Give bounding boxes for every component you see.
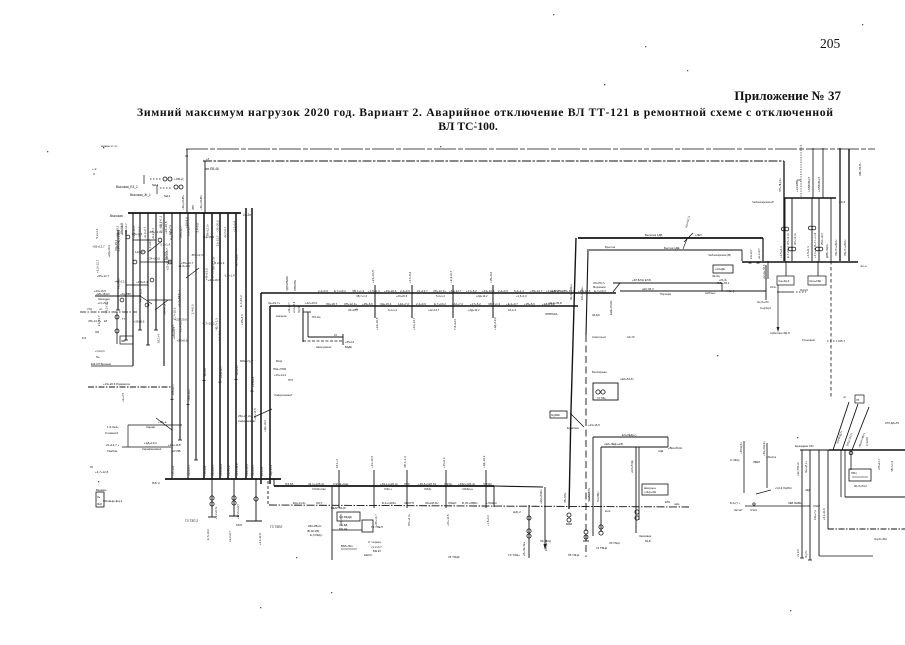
svg-text:+24+10,5: +24+10,5: [245, 464, 249, 476]
svg-text:АЦЕ: АЦЕ: [658, 449, 664, 453]
svg-text:ГЗ ТЗП 2: ГЗ ТЗП 2: [185, 519, 198, 523]
svg-text:+35+8,6: +35+8,6: [134, 319, 145, 323]
svg-text:+4,1+11,8: +4,1+11,8: [813, 245, 817, 258]
svg-text:+23+ДЕ: +23+ДЕ: [715, 267, 725, 271]
svg-text:+Е,2+0,7: +Е,2+0,7: [449, 270, 453, 283]
svg-text:Шеолукмонт: Шеолукмонт: [316, 345, 332, 349]
svg-text:14А+7,2: 14А+7,2: [163, 304, 167, 315]
svg-text:ЗЦ+15,4: ЗЦ+15,4: [269, 465, 273, 476]
svg-text:+ЕМ+ЛЗФч: +ЕМ+ЛЗФч: [539, 489, 543, 504]
svg-text:+2Д+19,2: +2Д+19,2: [144, 441, 157, 445]
svg-text:Высокая: Высокая: [110, 214, 123, 218]
svg-text:Ль: Ль: [97, 495, 101, 499]
svg-text:+43+16,5: +43+16,5: [588, 423, 600, 427]
svg-text:Шахунья+: Шахунья+: [644, 486, 657, 490]
svg-text:Брестня: Брестня: [605, 245, 616, 249]
svg-text:+42+13,7: +42+13,7: [412, 317, 416, 330]
svg-text:+2Д+19,2: +2Д+19,2: [468, 308, 480, 312]
svg-text:+55+12,7: +55+12,7: [124, 223, 128, 235]
svg-text:С. Чернец: С. Чернец: [368, 540, 381, 544]
svg-text:5,2+1,4: 5,2+1,4: [160, 242, 170, 246]
svg-text:+ЕЗ+ЛЗ,Зх: +ЕЗ+ЛЗ,Зх: [620, 377, 634, 381]
svg-text:Е,Л,ЛЕД,т: Е,Л,ЛЕД,т: [310, 533, 323, 537]
svg-text:ЧВ,7+1,3: ЧВ,7+1,3: [356, 294, 367, 298]
svg-text:ЛРЦ: ЛРЦ: [851, 471, 856, 475]
svg-text:+ЗЦ+ЛЫВч: +ЗЦ+ЛЫВч: [199, 195, 203, 210]
svg-text:ч-Бъfroн: ч-Бъfroн: [766, 455, 777, 459]
svg-text:ЗН+12,3+: ЗН+12,3+: [407, 513, 411, 526]
svg-text:Белоярская: Белоярская: [592, 370, 607, 374]
svg-text:Чга+ЗЦ-З: Чга+ЗЦ-З: [778, 279, 790, 283]
svg-text:Чита+1ВЕ: Чита+1ВЕ: [809, 279, 821, 283]
svg-text:Л: Л: [93, 172, 95, 176]
svg-text:+17+5,2: +17+5,2: [466, 289, 477, 293]
svg-text:+4,1+11,8: +4,1+11,8: [822, 508, 826, 520]
svg-text:5,2+1,4: 5,2+1,4: [388, 308, 397, 312]
svg-text:Арбеляне ЗД-Н: Арбеляне ЗД-Н: [770, 331, 790, 335]
svg-text:72): 72): [797, 178, 801, 182]
svg-text:Ераздваз 1Ю: Ераздваз 1Ю: [795, 444, 814, 448]
svg-text:+15+14,2: +15+14,2: [274, 373, 286, 377]
svg-text:Затча7: Затча7: [734, 508, 743, 512]
svg-text:ЦЗ(-2: ЦЗ(-2: [513, 510, 521, 514]
svg-text:ЗЗ,ЕЛ: ЗЗ,ЕЛ: [592, 313, 600, 317]
svg-text:Приложение № 37: Приложение № 37: [734, 88, 841, 103]
svg-text:Зимний максимум нагрузок 2020: Зимний максимум нагрузок 2020 год. Вариа…: [137, 106, 833, 119]
svg-text:+4,1+11В: +4,1+11В: [168, 443, 181, 447]
svg-text:+24+10,5: +24+10,5: [370, 456, 374, 468]
svg-text:5,2+1,4: 5,2+1,4: [215, 261, 225, 265]
svg-text:+Е,2+0,7: +Е,2+0,7: [187, 464, 191, 476]
svg-text:З-тЗЫр: З-тЗЫр: [730, 458, 740, 462]
svg-text:+ЕЛ,ЛЗ,Ч: +ЕЛ,ЛЗ,Ч: [642, 287, 654, 291]
svg-text:Нба+7000: Нба+7000: [273, 367, 287, 371]
svg-text:ЗЦЛУН: ЗЦЛУН: [404, 501, 414, 505]
svg-text:+24+10,5: +24+10,5: [132, 225, 136, 237]
svg-text:+23+20,6 Радимичи: +23+20,6 Радимичи: [103, 382, 130, 386]
svg-text:+42+13,7: +42+13,7: [114, 280, 127, 284]
svg-text:25А+19,2: 25А+19,2: [820, 233, 824, 245]
svg-text:+17+5,2+ЕУ: +17+5,2+ЕУ: [236, 504, 240, 519]
svg-text:ЗВ+ЛЗ(х: ЗВ+ЛЗ(х: [563, 492, 567, 503]
svg-text:ЗН+12,3+: ЗН+12,3+: [206, 223, 210, 236]
svg-text:ЧЕ-Лщ: ЧЕ-Лщ: [712, 275, 720, 278]
svg-text:+1,5+0,4: +1,5+0,4: [806, 246, 810, 258]
svg-text:225-7: 225-7: [838, 339, 846, 343]
svg-text:14А+7,2: 14А+7,2: [168, 224, 172, 235]
svg-text:+35+8,6: +35+8,6: [177, 338, 188, 342]
svg-text:+4,1+11,8: +4,1+11,8: [139, 289, 143, 302]
svg-text:+55+12,7: +55+12,7: [171, 384, 175, 396]
svg-text:205: 205: [820, 36, 841, 51]
svg-text:+55+12,7: +55+12,7: [877, 458, 881, 470]
svg-text:+23+20,6: +23+20,6: [216, 220, 220, 232]
svg-text:2,4+0,6: 2,4+0,6: [400, 289, 410, 293]
svg-text:+17+5,2: +17+5,2: [97, 301, 108, 305]
svg-text:1843: 1843: [236, 523, 242, 527]
svg-text:+В+ЧЕ,ЧЕ+: +В+ЧЕ,ЧЕ+: [522, 541, 526, 556]
svg-text:Зц)ЗЫБ: Зц)ЗЫБ: [551, 414, 560, 417]
svg-text:+Е,2+0,7: +Е,2+0,7: [143, 227, 147, 239]
svg-text:чіл-н: чіл-н: [860, 264, 867, 268]
svg-text:+32,7/32,2х: +32,7/32,2х: [796, 461, 800, 476]
svg-text:АэНЧыл: АэНЧыл: [705, 291, 716, 295]
svg-text:ВЗЛ+ЛЬч: ВЗЛ+ЛЬч: [341, 544, 353, 548]
svg-text:ЕВ-46: ЕВ-46: [210, 167, 219, 171]
svg-text:ПЗ,65: ПЗ,65: [285, 482, 294, 486]
svg-text:чн6е: чн6е: [674, 503, 680, 506]
svg-text:+35+8,6: +35+8,6: [524, 302, 535, 306]
svg-text:АТЛ ДЗ+ЛЗ: АТЛ ДЗ+ЛЗ: [885, 421, 899, 425]
svg-text:ЗН+12,3+: ЗН+12,3+: [88, 319, 101, 323]
svg-text:АЗ+ЛЗ,7х: АЗ+ЛЗ,7х: [684, 215, 691, 228]
svg-text:Б,4+1Д,Бх: Б,4+1Д,Бх: [382, 501, 396, 505]
svg-text:18,1+4: 18,1+4: [157, 334, 161, 343]
svg-text:18,1+4: 18,1+4: [335, 459, 339, 468]
svg-text:ЗЦ/ЛЗ: ЗЦ/ЛЗ: [298, 306, 301, 313]
svg-text:ЗН+12,3+: ЗН+12,3+: [433, 289, 446, 293]
svg-text:ЗЫ,Зч+ЛЫч: ЗЫ,Зч+ЛЫч: [843, 239, 847, 256]
svg-text:+632+126,4х: +632+126,4х: [458, 482, 476, 486]
svg-text:ГВ ТЗЦ2: ГВ ТЗЦ2: [568, 553, 580, 557]
svg-text:Е,7+10,2: Е,7+10,2: [234, 254, 238, 266]
svg-text:1н-2н: 1н-2н: [243, 213, 251, 217]
svg-text:АЬ,70: АЬ,70: [627, 335, 635, 339]
svg-text:лл: лл: [843, 396, 847, 399]
svg-text:+1,5+0,4: +1,5+0,4: [232, 221, 236, 233]
svg-text:+63,6+126,51: +63,6+126,51: [418, 482, 436, 486]
svg-text:25А+19,2: 25А+19,2: [187, 389, 191, 401]
svg-text:Зн+19,7+: Зн+19,7+: [268, 301, 280, 305]
svg-text:ОРВНЖА: ОРВНЖА: [545, 312, 558, 316]
svg-text:НО-ВЕДД: НО-ВЕДД: [339, 515, 352, 519]
svg-text:+Еч,Е+ЛЗ,З: +Еч,Е+ЛЗ,З: [762, 264, 766, 279]
svg-text:+43+16,5: +43+16,5: [208, 278, 221, 282]
svg-text:+24+20,7: +24+20,7: [288, 302, 291, 313]
svg-text:7,8+123: 7,8+123: [171, 465, 175, 476]
svg-text:Ам,Зч+ЛЗ: Ам,Зч+ЛЗ: [757, 301, 769, 304]
svg-text:Тронхвим: Тронхвим: [802, 338, 815, 342]
svg-text:Бестня 1ДЕ: Бестня 1ДЕ: [664, 246, 680, 250]
svg-text:НЕАН ЛЬ-Бт: НЕАН ЛЬ-Бт: [331, 506, 347, 510]
svg-text:ПЗ-Но: ПЗ-Но: [312, 315, 321, 319]
svg-text:вслв: вслв: [605, 510, 611, 513]
svg-text:ЗЦ,Зч+ЗЫ: ЗЦ,Зч+ЗЫ: [874, 537, 887, 541]
svg-text:Ч/141: Ч/141: [750, 508, 757, 512]
svg-text:ЕФ-КЛ Брянем: ЕФ-КЛ Брянем: [91, 362, 111, 366]
svg-text:+-2: +-2: [92, 167, 97, 171]
svg-text:+Е,2+0,7: +Е,2+0,7: [251, 464, 255, 476]
svg-text:ЕДЕ+ЛЗ,Бх: ЕДЕ+ЛЗ,Бх: [609, 300, 613, 315]
svg-text:18,1+4: 18,1+4: [203, 368, 207, 377]
svg-text:+17+5,2: +17+5,2: [470, 302, 481, 306]
svg-text:№14: №14: [164, 194, 171, 198]
svg-text:+Е,Ъ+ЛЗ,2: +Е,Ъ+ЛЗ,2: [716, 281, 730, 285]
svg-text:ПЗг 2: ПЗг 2: [152, 481, 160, 485]
svg-text:+24+10,5: +24+10,5: [371, 270, 375, 283]
svg-text:+З/ЗЦ,Зч: +З/ЗЦ,Зч: [739, 442, 743, 454]
svg-text:+23+20,6: +23+20,6: [384, 289, 397, 293]
svg-text:Е,7+10,2: Е,7+10,2: [786, 246, 790, 258]
svg-text:ГЛВУ/ЛЕ: ГЛВУ/ЛЕ: [293, 280, 297, 291]
svg-text:2,4+0,6: 2,4+0,6: [416, 302, 426, 306]
svg-text:Мирт: Мирт: [276, 359, 283, 363]
svg-text:+ВЫ+ЛЫ,Е: +ВЫ+ЛЫ,Е: [668, 446, 682, 450]
svg-text:5,2+1,4: 5,2+1,4: [514, 289, 524, 293]
svg-text:ЛЗ+18,7: ЛЗ+18,7: [326, 302, 338, 306]
svg-text:+ЕЛ+ЛЗДх: +ЕЛ+ЛЗДх: [630, 460, 634, 473]
svg-text:21+13,7: 21+13,7: [216, 235, 220, 246]
svg-text:+1,9+0,3: +1,9+0,3: [95, 350, 105, 353]
svg-text:ЗЬ,Л+ЛЗ,2: ЗЬ,Л+ЛЗ,2: [854, 484, 867, 488]
svg-text:5,2+1,4: 5,2+1,4: [95, 228, 99, 238]
svg-text:+Е,2+0,7: +Е,2+0,7: [211, 464, 215, 476]
svg-text:ЛЗ ТЗЦ2: ЛЗ ТЗЦ2: [609, 541, 620, 545]
svg-text:+ЗЦ+ЛЦ,Зч: +ЗЦ+ЛЦ,Зч: [762, 441, 766, 456]
svg-text:+Ч,ЕЛ: +Ч,ЕЛ: [796, 549, 800, 557]
svg-text:ДЗВ+ЗЦЗ+: ДЗВ+ЗЦЗ+: [825, 243, 829, 258]
svg-text:78: 78: [856, 398, 860, 402]
svg-text:Высокая_Ж_1: Высокая_Ж_1: [130, 193, 151, 197]
svg-text:П37: П37: [288, 378, 294, 382]
svg-text:+4,7+12,8: +4,7+12,8: [95, 470, 109, 474]
svg-text:Б,ЛУ+ЛВБх: Б,ЛУ+ЛВБх: [462, 501, 478, 505]
svg-text:+ЕЛ7+ЛЕА: +ЕЛ7+ЛЕА: [550, 289, 564, 293]
svg-text:+Ч,2+3,7: +Ч,2+3,7: [371, 545, 382, 549]
svg-text:25А-27,2х: 25А-27,2х: [238, 414, 252, 418]
svg-text:ЛЕВ ЗЫВЫ: ЛЕВ ЗЫВЫ: [788, 501, 803, 505]
svg-text:+1,5+0,4: +1,5+0,4: [516, 294, 527, 298]
svg-text:ЗЦ+ВЦД7х: ЗЦ+ВЦД7х: [835, 430, 843, 445]
svg-text:ЛВЕН: ЛВЕН: [753, 460, 760, 464]
svg-text:ЧВ,7+1,3: ЧВ,7+1,3: [403, 456, 407, 468]
svg-text:ЧДГЗ/ЛЕВА: ЧДГЗ/ЛЕВА: [285, 276, 289, 291]
svg-text:ЛЬ ТЫЦ: ЛЬ ТЫЦ: [540, 539, 552, 543]
svg-text:З-щ(ЗЦ,З: З-щ(ЗЦ,З: [760, 307, 771, 310]
svg-text:ВЗЦ+ЛЦ7х: ВЗЦ+ЛЦ7х: [845, 432, 853, 446]
svg-text:+55+12,7: +55+12,7: [92, 245, 105, 249]
svg-text:ВЬДЕ: ВЬДЕ: [345, 345, 352, 349]
svg-text:Моршанск: Моршанск: [593, 285, 607, 289]
svg-text:ЗВУ: ЗВУ: [191, 205, 195, 210]
svg-text:ЗН+12,3+: ЗН+12,3+: [793, 232, 797, 245]
svg-text:+35+8,6: +35+8,6: [362, 302, 373, 306]
svg-text:24,6+: 24,6+: [770, 285, 777, 289]
svg-text:+17+5,2: +17+5,2: [227, 465, 231, 476]
svg-text:ч-ЗЦч+ЗЫ: ч-ЗЦч+ЗЫ: [644, 491, 657, 494]
svg-text:+55+12,7: +55+12,7: [530, 289, 543, 293]
svg-text:14А+7,2: 14А+7,2: [813, 510, 817, 520]
svg-text:2,4+0,6: 2,4+0,6: [865, 437, 869, 446]
svg-text:№14: №14: [152, 183, 159, 187]
svg-text:+1,5+0,4: +1,5+0,4: [368, 289, 380, 293]
svg-text:7,8+123: 7,8+123: [453, 319, 457, 330]
svg-text:78 ТЗЦ9: 78 ТЗЦ9: [448, 555, 460, 559]
svg-text:ЛЗ+18,7: ЛЗ+18,7: [187, 225, 191, 236]
svg-text:+ЗЛЗ/ЛЫ,З: +ЗЛЗ/ЛЫ,З: [817, 177, 821, 192]
svg-text:+23+20,6: +23+20,6: [172, 327, 176, 340]
svg-text:Т.Г: Т.Г: [122, 318, 126, 321]
svg-text:+23+20,6: +23+20,6: [396, 294, 408, 298]
svg-text:ЗН+12,3+: ЗН+12,3+: [191, 253, 204, 257]
svg-text:+23+20,6: +23+20,6: [175, 318, 188, 322]
svg-text:+24+10,5: +24+10,5: [253, 408, 257, 420]
svg-text:+24+10,5: +24+10,5: [446, 514, 450, 526]
svg-text:Б,2+(7 +: Б,2+(7 +: [730, 501, 741, 505]
svg-text:+Е,2+0,7: +Е,2+0,7: [235, 364, 239, 375]
svg-text:+35+8,6: +35+8,6: [442, 457, 446, 468]
svg-text:ЕЛ+ЛЕДч+): ЕЛ+ЛЕДч+): [622, 433, 636, 437]
svg-text:+2Д+19,2: +2Д+19,2: [476, 294, 488, 298]
svg-text:+2Д+19,2: +2Д+19,2: [107, 245, 111, 258]
svg-text:5,2+1,4: 5,2+1,4: [225, 274, 235, 278]
svg-text:ЗИ: ЗИ: [95, 330, 99, 334]
svg-text:+42+20,6: +42+20,6: [305, 301, 317, 305]
svg-text:ЗМ+ЛЗ,В+: ЗМ+ЛЗ,В+: [858, 162, 862, 176]
svg-text:5,2+1,4: 5,2+1,4: [436, 294, 445, 298]
svg-text:14А+7,2: 14А+7,2: [452, 302, 463, 306]
svg-text:Пороним: Пороним: [660, 292, 671, 296]
svg-text:Словекс2: Словекс2: [105, 431, 118, 435]
svg-text:+55+12: +55+12: [345, 340, 355, 344]
svg-text:69-Б: 69-Б: [645, 539, 651, 543]
svg-text:ЛЭЦИ: ЛЭЦИ: [448, 501, 456, 505]
svg-text:ЛЧК+ч: ЛЧК+ч: [384, 487, 393, 491]
svg-text:+63,1+126,4х: +63,1+126,4х: [380, 482, 398, 486]
svg-text:Заячёвка: Заячёвка: [639, 534, 652, 538]
svg-text:СЭЧЭ+Сви: СЭЧЭ+Сви: [312, 487, 326, 491]
svg-text:5,2+1,4: 5,2+1,4: [117, 241, 121, 251]
svg-text:7,8+123: 7,8+123: [164, 252, 168, 263]
svg-text:25: 25: [185, 154, 189, 158]
svg-text:ЗЦ,Зч: ЗЦ,Зч: [804, 550, 808, 558]
svg-text:ВЛ ТС-100.: ВЛ ТС-100.: [438, 120, 498, 133]
svg-text:ЧВ,7+1,3: ЧВ,7+1,3: [488, 302, 501, 306]
svg-text:2,4+0,6: 2,4+0,6: [498, 289, 508, 293]
svg-text:+б: +б: [206, 157, 210, 161]
svg-text:ЗЫ,Зч+ЛЫч: ЗЫ,Зч+ЛЫч: [834, 239, 838, 256]
svg-text:Веселая 1ДБ: Веселая 1ДБ: [645, 233, 662, 237]
svg-text:Мба+7д,0: Мба+7д,0: [240, 359, 253, 363]
svg-text:Чебоксарская+Р: Чебоксарская+Р: [752, 200, 774, 204]
svg-text:+Е,2+0,7: +Е,2+0,7: [506, 302, 518, 306]
svg-text:44,1+126,4х: 44,1+126,4х: [308, 482, 325, 486]
svg-text:Заринская: Заринская: [98, 298, 110, 301]
svg-text:ЗН+12,3+: ЗН+12,3+: [211, 256, 215, 269]
svg-text:2,4+0,6: 2,4+0,6: [195, 223, 199, 233]
svg-text:ЕУ/ЛБ: ЕУ/ЛБ: [172, 449, 181, 453]
svg-text:ЛЭЧЬ: ЛЭЧЬ: [444, 482, 452, 486]
svg-text:+4,1+11,8: +4,1+11,8: [813, 232, 817, 245]
svg-text:Ерактваз: Ерактваз: [567, 426, 579, 430]
svg-text:+ЕЦ/+ЛЗ,Б: +ЕЦ/+ЛЗ,Б: [548, 301, 562, 305]
svg-text:Апатиты+й: Апатиты+й: [592, 335, 606, 339]
svg-text:ЛЗ+18,7: ЛЗ+18,7: [348, 308, 359, 312]
svg-text:ЕЗ+14,2с: ЕЗ+14,2с: [293, 501, 306, 505]
svg-text:ЗЗ+ЦЛ,Бх: ЗЗ+ЦЛ,Бх: [425, 501, 439, 505]
svg-text:+0,2+20,6: +0,2+20,6: [293, 301, 296, 313]
svg-text:Е,7+10,2: Е,7+10,2: [239, 295, 243, 307]
svg-text:СЭЧЭ+Сви: СЭЧЭ+Сви: [333, 482, 349, 486]
svg-text:Тамбов.: Тамбов.: [107, 449, 118, 453]
svg-text:+43+16,5: +43+16,5: [205, 268, 209, 281]
svg-text:+Ч,Ъ+(): +Ч,Ъ+(): [725, 289, 735, 293]
svg-text:7,8+123: 7,8+123: [203, 465, 207, 476]
svg-text:+Е,2+0,7: +Е,2+0,7: [159, 221, 163, 233]
svg-text:ЗУгУ: ЗУгУ: [316, 501, 323, 505]
svg-text:+Е,2+0,7х: +Е,2+0,7х: [214, 506, 218, 519]
svg-text:Видяево: Видяево: [96, 488, 107, 492]
svg-text:Е,7+10,2: Е,7+10,2: [206, 529, 210, 540]
svg-text:1,5-Зь4+: 1,5-Зь4+: [107, 425, 119, 429]
svg-text:+ЛЭЦЫ: +ЛЭЦЫ: [486, 501, 497, 505]
svg-text:Сафроновка7: Сафроновка7: [274, 393, 293, 397]
svg-text:+ЗЦ+ЛВУ: +ЗЦ+ЛВУ: [120, 293, 132, 296]
svg-text:Сараф.: Сараф.: [146, 425, 156, 429]
svg-text:+1,5+0,4: +1,5+0,4: [136, 280, 148, 284]
svg-text:Ю: Ю: [90, 465, 93, 469]
svg-text:+Е+2,5: +Е+2,5: [121, 392, 125, 402]
svg-text:ЗЛ+ЛЗ,7+: ЗЛ+ЛЗ,7+: [593, 281, 606, 285]
svg-text:+55+12,7: +55+12,7: [179, 226, 183, 238]
svg-text:Е,7+10,2: Е,7+10,2: [203, 322, 215, 326]
svg-text:18,1+4: 18,1+4: [177, 289, 181, 298]
svg-text:21+13,7: 21+13,7: [749, 249, 753, 259]
svg-text:+ЗЛЗ/ЛЫ,З: +ЗЛЗ/ЛЫ,З: [807, 177, 811, 192]
svg-text:+55+12,7: +55+12,7: [181, 261, 194, 265]
svg-text:ЗН+12,3+: ЗН+12,3+: [344, 302, 357, 306]
svg-text:ЕЛ: ЕЛ: [104, 320, 108, 323]
svg-text:+17+5,2: +17+5,2: [179, 321, 183, 332]
svg-text:+ОВ-2(: +ОВ-2(: [174, 177, 184, 181]
svg-text:+ЕЦн+ЕЦ,4: +ЕЦн+ЕЦ,4: [107, 499, 122, 503]
svg-text:+Е,2+0,7: +Е,2+0,7: [223, 226, 227, 238]
svg-text:+Е,2+0,7: +Е,2+0,7: [151, 227, 155, 239]
svg-text:Ль: Ль: [96, 355, 100, 359]
svg-text:ГЗ ТВЦ2: ГЗ ТВЦ2: [596, 546, 608, 550]
svg-text:+2Д+19,2: +2Д+19,2: [116, 225, 120, 238]
svg-text:ЗЦЛ: ЗЦЛ: [97, 503, 102, 506]
svg-text:Чебоксарская (В): Чебоксарская (В): [708, 253, 731, 257]
svg-text:+4,1+11,8: +4,1+11,8: [258, 533, 262, 545]
svg-text:ЛЫ,ВД: ЛЫ,ВД: [339, 523, 348, 527]
svg-text:+24+10,5: +24+10,5: [147, 257, 160, 261]
svg-text:Е,7+10,2: Е,7+10,2: [594, 289, 606, 293]
svg-text:ЗН+12,3+: ЗН+12,3+: [786, 232, 790, 245]
svg-text:(В-Элч(В): (В-Элч(В): [307, 529, 319, 533]
svg-text:Е,7+10,2: Е,7+10,2: [334, 289, 346, 293]
svg-text:18,1+4: 18,1+4: [508, 308, 517, 312]
svg-text:+ЗЛ,БЛ,Е ЕЛ,Б: +ЗЛ,БЛ,Е ЕЛ,Б: [632, 278, 651, 282]
svg-text:ГЗ ТЗЕЛ: ГЗ ТЗЕЛ: [270, 525, 282, 529]
svg-text:+ЧЗ-й ЛЦ,БЫ: +ЧЗ-й ЛЦ,БЫ: [775, 486, 792, 490]
svg-text:+24+10,5: +24+10,5: [375, 317, 379, 330]
svg-text:ЗЗ,З: ЗЗ,З: [839, 200, 845, 204]
svg-text:+Е,2+0,7: +Е,2+0,7: [228, 531, 232, 542]
svg-text:+2Д+19,2: +2Д+19,2: [493, 317, 497, 330]
svg-text:ЕЫАЛ: ЕЫАЛ: [364, 553, 372, 557]
svg-text:+1,5+0,4: +1,5+0,4: [251, 376, 255, 387]
svg-text:Высокая_ЕЗ_2: Высокая_ЕЗ_2: [116, 185, 138, 189]
svg-text:+1,5+0,4: +1,5+0,4: [486, 515, 490, 526]
svg-text:ЗЬ,Зч+ЛЫч+: ЗЬ,Зч+ЛЫч+: [569, 283, 573, 300]
svg-text:7ХЦ: 7ХЦ: [87, 308, 92, 311]
svg-text:+Е,2+0,7: +Е,2+0,7: [757, 248, 761, 259]
svg-text:ЧВ,7+1,3: ЧВ,7+1,3: [352, 289, 365, 293]
svg-text:+1,5+0,4: +1,5+0,4: [779, 246, 783, 258]
svg-text:+ЛЕУ: +ЛЕУ: [695, 233, 702, 237]
svg-text:28А-9В-2х: 28А-9В-2х: [308, 524, 322, 528]
